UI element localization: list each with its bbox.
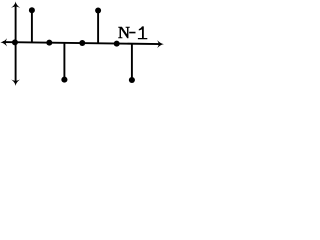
zero sample dot n=6 (114, 41, 120, 47)
sample dot n=N-1 value -1 (129, 77, 135, 83)
sample dot n=1 value +1 (29, 7, 35, 13)
zero sample dot n=2 (46, 40, 52, 46)
stem n=3 (down) (63, 43, 65, 80)
stem n=1 (up) (31, 10, 33, 42)
stem n=5 (up) (97, 11, 99, 44)
zero sample dot n=4 (79, 40, 85, 46)
svg-text:N: N (118, 23, 130, 42)
left axis arrowhead (0, 38, 7, 46)
sample dot n=3 value -1 (61, 77, 67, 83)
up axis arrowhead (11, 1, 20, 7)
horizontal n-axis line (slightly tilted as in scan) (3, 42, 160, 44)
vertical axis line (15, 4, 17, 83)
sample dot n=5 value +1 (95, 8, 101, 14)
label digit 1 (138, 26, 147, 39)
down axis arrowhead (11, 80, 20, 86)
label minus sign (129, 32, 135, 34)
right axis arrowhead (157, 40, 164, 48)
stem n=N-1 (down) (131, 44, 133, 80)
zero sample dot at origin n=0 (12, 39, 18, 45)
